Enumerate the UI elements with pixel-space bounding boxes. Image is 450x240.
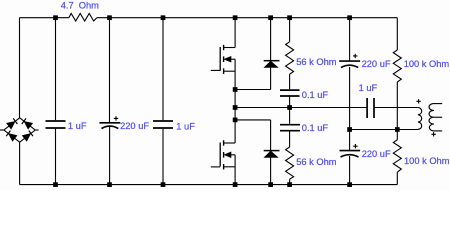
node top rail x109: [107, 15, 112, 20]
transistor Q1 channel ticks: [223, 45, 225, 74]
wire column R2 top: [289, 18, 291, 42]
capacitor C4 0.1 uF: [280, 90, 300, 96]
svg-text:56 k Ohm: 56 k Ohm: [296, 157, 337, 167]
svg-text:100 k Ohm: 100 k Ohm: [404, 156, 450, 166]
wire left column upper (bridge to top rail): [19, 18, 21, 118]
wire Q1 drain to top rail: [234, 18, 236, 48]
node bottom rail x109: [107, 182, 112, 187]
wire rail node B (Q2 drain to D2): [235, 119, 271, 121]
wire column C6 top: [349, 18, 351, 61]
node bottom rail x289: [287, 182, 292, 187]
wire diode D2 column: [270, 120, 272, 187]
wire column C3 upper: [162, 18, 164, 121]
wire R2 to C4: [289, 74, 291, 89]
node mid rail x235: [233, 105, 238, 110]
node bottom rail x55: [53, 182, 58, 187]
wire R5 to bottom rail: [396, 172, 398, 184]
wire T1 secondary center tap: [434, 116, 442, 118]
node A junction: [233, 87, 238, 92]
bridge AC stub right: [35, 129, 38, 131]
node top rail x270: [268, 15, 273, 20]
svg-text:0.1 uF: 0.1 uF: [302, 123, 329, 133]
wire column C2 lower: [109, 127, 111, 187]
transistor Q2 body lead: [231, 154, 236, 156]
wire mid rail to C5: [289, 108, 291, 124]
wire diode D1 column: [270, 18, 272, 90]
transistor Q2 channel ticks: [223, 140, 225, 169]
wire column C1 lower: [55, 129, 57, 187]
diode D2: [264, 151, 280, 158]
transformer T1 primary winding: [418, 108, 422, 130]
svg-text:1 uF: 1 uF: [68, 121, 87, 131]
node bottom rail x163: [161, 182, 166, 187]
transistor Q2 source lead: [224, 166, 236, 168]
node bottom rail x270: [268, 182, 273, 187]
transistor Q1 body arrow: [224, 56, 231, 62]
resistor R3 56 k Ohm: [286, 147, 294, 179]
wire R4 to node D: [396, 82, 398, 140]
node D junction: [395, 127, 400, 132]
capacitor C5 0.1 uF: [280, 125, 300, 131]
transformer T1 secondary winding: [429, 104, 434, 131]
capacitor C7 220 uF bottom: [340, 151, 361, 157]
node B junction: [233, 118, 238, 123]
wire left column lower (bridge to bottom rail): [19, 142, 21, 184]
svg-text:220 uF: 220 uF: [120, 121, 149, 131]
wire column C1 upper: [55, 18, 57, 121]
wire C5 to R3: [289, 131, 291, 147]
svg-text:220 uF: 220 uF: [362, 149, 391, 159]
bridge diode D_TL: [7, 118, 17, 128]
svg-text:56 k Ohm: 56 k Ohm: [296, 57, 337, 67]
wire C4 to mid rail: [289, 96, 291, 108]
bridge diode D_BR: [23, 131, 33, 141]
node top rail x163: [161, 15, 166, 20]
wire Q2 source to bottom rail: [234, 155, 236, 187]
resistor R1 4.7 Ohm zigzag: [69, 14, 97, 22]
node mid rail x289: [287, 105, 292, 110]
bridge rectifier BR1 diamond: [4, 118, 35, 142]
wire T1 secondary top stub: [434, 103, 442, 105]
plus sign T1 primary: [416, 99, 420, 103]
svg-text:4.7 Ohm: 4.7 Ohm: [61, 1, 99, 11]
transistor Q1 body lead: [231, 58, 236, 60]
svg-text:1 uF: 1 uF: [176, 121, 195, 131]
node bottom rail x235: [233, 182, 238, 187]
capacitor C3 1 uF plates: [153, 121, 173, 128]
transistor Q2 lower MOSFET gate line: [219, 143, 221, 167]
resistor R5 100 k Ohm: [393, 140, 401, 172]
wire column R4 top corner: [396, 18, 398, 50]
resistor R2 56 k Ohm: [286, 42, 294, 74]
bridge diode D_BL: [6, 131, 16, 141]
wire Q1 source down mid column: [234, 59, 236, 143]
wire secondary return rail: [350, 129, 418, 131]
bridge diode D_TR: [22, 118, 32, 128]
wire top rail right segment: [97, 17, 398, 19]
wire column C3 lower: [162, 129, 164, 187]
diode D1: [264, 61, 280, 68]
transistor Q1 source lead: [224, 70, 236, 72]
transistor Q2 gate lead: [211, 166, 220, 168]
wire column C2 upper: [109, 18, 111, 122]
node top rail x289: [287, 15, 292, 20]
transistor Q1 gate lead: [211, 69, 220, 71]
node bottom rail x349: [347, 182, 352, 187]
wire rail node A (Q1 source to D1): [235, 89, 271, 91]
wire top rail left segment: [20, 17, 69, 19]
svg-text:220 uF: 220 uF: [362, 59, 391, 69]
wire C6 to node C: [349, 67, 351, 151]
wire T1 secondary bottom stub: [434, 130, 442, 132]
node top rail x349: [347, 15, 352, 20]
plus sign T1 secondary: [431, 132, 435, 136]
capacitor C1 1 uF plates: [46, 121, 66, 128]
wire bottom rail: [20, 184, 398, 186]
wire C7 to bottom rail: [349, 156, 351, 187]
wire mid rail right part: [374, 107, 418, 109]
wire R3 to bottom rail: [289, 179, 291, 187]
svg-text:100 k Ohm: 100 k Ohm: [404, 59, 450, 69]
resistor R4 100 k Ohm: [393, 50, 401, 82]
capacitor C6 220 uF top: [339, 61, 360, 67]
node top rail x55: [53, 15, 58, 20]
node top rail x235: [233, 15, 238, 20]
capacitor C8 1 uF horizontal plates: [367, 98, 374, 118]
svg-text:1 uF: 1 uF: [359, 83, 378, 93]
transistor Q2 drain lead: [224, 142, 236, 144]
plus sign C6: [353, 54, 357, 58]
wire mid rail left part: [235, 107, 367, 109]
capacitor C2 220 uF polarized plates: [99, 123, 120, 129]
transistor Q1 drain lead: [224, 47, 236, 49]
bridge AC stub left: [0, 129, 4, 131]
transistor Q1 upper MOSFET gate line: [219, 47, 221, 71]
transistor Q2 body arrow: [224, 152, 231, 158]
plus sign C2: [114, 116, 118, 120]
node C junction: [347, 127, 352, 132]
svg-text:0.1 uF: 0.1 uF: [302, 90, 329, 100]
plus sign C7: [353, 144, 357, 148]
